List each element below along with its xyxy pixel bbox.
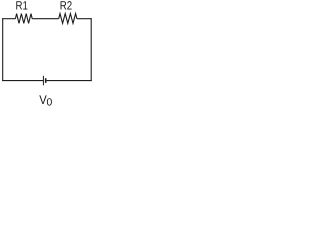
resistor R2 [59, 14, 77, 24]
resistor R1 [15, 14, 32, 24]
svg-text:R2: R2 [60, 0, 73, 13]
wire top-middle segment [32, 18, 59, 20]
battery V0 positive plate (long thin) [42, 76, 44, 86]
svg-text:R1: R1 [15, 0, 28, 13]
wire top-right segment [77, 18, 92, 20]
wire bottom-right segment [46, 80, 91, 82]
wire right vertical [90, 18, 92, 81]
wire top-left segment [2, 18, 15, 20]
battery V0 negative plate (short thick) [45, 78, 47, 83]
svg-text:0: 0 [47, 97, 53, 107]
wire left vertical [2, 18, 4, 81]
wire bottom-left segment [2, 80, 43, 82]
